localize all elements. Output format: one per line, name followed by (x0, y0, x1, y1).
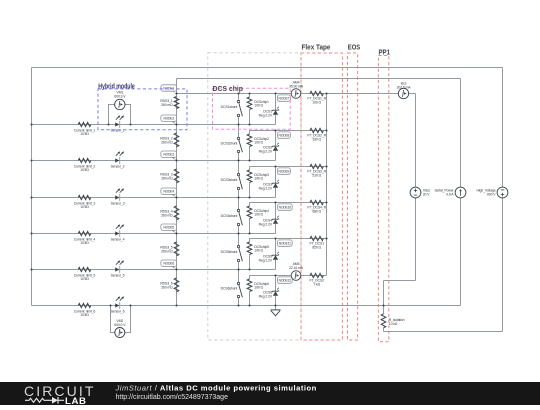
node NODE10 (276, 204, 293, 212)
ammeter AM6 (291, 271, 301, 281)
node NODE8 (276, 132, 291, 140)
node NODE6 (161, 260, 177, 270)
label DCS1 (259, 110, 273, 118)
section box: EOS (348, 53, 358, 340)
resistor RDS3_6 (160, 278, 179, 292)
svg-text:Sensor_6: Sensor_6 (111, 310, 125, 314)
wire: DCS2shunt leads (238, 125, 240, 138)
photodiode Sensor_5 (115, 261, 124, 274)
wire: DCS cell 6 top rail (250, 275, 327, 277)
svg-text:22.16 mA: 22.16 mA (289, 266, 304, 270)
label DCS5 (259, 255, 273, 263)
CircuitLab logo (24, 383, 95, 407)
node NODE12 (276, 277, 293, 285)
resistor FT_DCS3_R (307, 164, 326, 177)
ammeter Idcs (398, 88, 408, 98)
svg-text:100 Ω: 100 Ω (254, 141, 263, 145)
wire: DCS5shunt leads (238, 234, 240, 246)
label AM6 value (289, 262, 304, 270)
svg-text:260 mΩ: 260 mΩ (161, 286, 173, 290)
zener diode DCS4 Reg 2.2V (275, 203, 277, 234)
svg-text:Flex Tape: Flex Tape (302, 44, 331, 51)
svg-text:100 Ω: 100 Ω (254, 286, 263, 290)
svg-text:95.90 mA: 95.90 mA (289, 84, 304, 88)
section box: Hybrid module (98, 89, 187, 130)
svg-text:NODE8: NODE8 (279, 134, 290, 138)
wire: down to R_isolation (383, 281, 385, 314)
node NODE7 (276, 95, 291, 103)
svg-text:600.3 V: 600.3 V (114, 95, 126, 99)
wire: bus to Idcs (327, 93, 399, 95)
resistor RDS3_2 (160, 133, 179, 147)
wire: second rail to Serial_Power (177, 78, 461, 80)
resistor RDS3_3 (160, 169, 179, 183)
svg-text:100 Ω: 100 Ω (254, 213, 263, 217)
wire: row 6 extension to Serial_Power return (276, 305, 461, 307)
switch DCS4shunt (237, 209, 242, 225)
photodiode Sensor_1 (115, 116, 124, 129)
label AM4 value (289, 80, 304, 88)
svg-text:10 kΩ: 10 kΩ (80, 241, 89, 245)
svg-text:10 kΩ: 10 kΩ (389, 322, 398, 326)
wire: Serial_Power top lead (460, 79, 462, 188)
wire: DCS3shunt leads (238, 161, 240, 174)
svg-text:Reg 2.2V: Reg 2.2V (259, 259, 273, 263)
voltmeter VM1 (109, 105, 131, 125)
resistor Current_limit_1 (74, 122, 96, 136)
wire: Serial_Power bottom lead (460, 198, 462, 306)
svg-text:260 mΩ: 260 mΩ (161, 250, 173, 254)
svg-text:DCS4shunt: DCS4shunt (221, 214, 238, 218)
svg-text:DCS2shunt: DCS2shunt (221, 141, 238, 145)
section box: DCS chip (213, 88, 291, 129)
svg-text:PP1: PP1 (379, 49, 391, 56)
svg-text:NODE7: NODE7 (279, 97, 290, 101)
photodiode Sensor_6 (115, 297, 124, 310)
wire: top rail from module frame to High_Voltage (32, 67, 503, 69)
label DCS6 (259, 291, 273, 299)
svg-text:600.0 V: 600.0 V (114, 323, 126, 327)
node NODE11 (276, 240, 293, 248)
svg-text:Sensor_2: Sensor_2 (111, 165, 125, 169)
resistor FT_DCS2_R (307, 128, 326, 141)
switch DCS3shunt (237, 173, 242, 189)
label DCS3 (259, 183, 273, 191)
svg-text:Sensor_3: Sensor_3 (111, 202, 125, 206)
svg-text:7 kΩ: 7 kΩ (313, 283, 320, 287)
wire: High_Voltage bottom lead (502, 198, 504, 332)
svg-text:100 Ω: 100 Ω (254, 249, 263, 253)
switch DCS2shunt (237, 137, 242, 152)
svg-text:DCS1shunt: DCS1shunt (221, 105, 238, 109)
resistor DCSchip1 (247, 94, 269, 125)
svg-text:NODE9: NODE9 (279, 170, 290, 174)
svg-text:0.6 A: 0.6 A (446, 193, 454, 197)
section box: unlabeled gray region (208, 53, 301, 340)
section box: PP1 (378, 56, 388, 342)
svg-text:DCS6shunt: DCS6shunt (221, 286, 238, 290)
zener diode DCS3 Reg 2.2V (275, 167, 277, 198)
svg-text:100 Ω: 100 Ω (254, 104, 263, 108)
zener diode DCS6 Reg 2.2V (275, 276, 277, 306)
svg-text:Reg 2.2V: Reg 2.2V (259, 223, 273, 227)
svg-text:510 Ω: 510 Ω (312, 174, 321, 178)
ground (271, 306, 281, 316)
photodiode Sensor_3 (115, 189, 124, 202)
zener diode DCS5 Reg 2.2V (275, 239, 277, 270)
svg-text:Sensor_4: Sensor_4 (111, 238, 125, 242)
svg-text:NODE6: NODE6 (163, 262, 174, 266)
node NODE1 (161, 85, 177, 94)
resistor Current_limit_6 (74, 303, 96, 317)
photodiode Sensor_2 (115, 152, 124, 165)
resistor DCSchip5 (247, 239, 269, 270)
node NODE4 (161, 188, 177, 198)
wire: DCS cell 4 top rail (250, 202, 327, 204)
wire: row 5 horizontal (32, 269, 276, 271)
wire: row 1 horizontal (32, 124, 276, 126)
wire: High_Voltage top lead (502, 68, 504, 188)
resistor FT_DCS2 (309, 273, 324, 286)
wire: DCS1shunt leads (238, 94, 240, 101)
resistor Current_limit_5 (74, 267, 96, 281)
svg-text:Hybrid module: Hybrid module (98, 82, 135, 91)
resistor RDS3_5 (160, 242, 179, 256)
svg-text:Reg 2.2V: Reg 2.2V (259, 295, 273, 299)
svg-text:NODE4: NODE4 (163, 190, 174, 194)
wire: row 6 horizontal (32, 305, 276, 307)
wire: Idcs to Vdcs line (409, 93, 416, 95)
wire: row 2 horizontal (32, 160, 276, 162)
wire: DCS6shunt leads (238, 270, 240, 283)
photodiode Sensor_4 (115, 225, 124, 238)
svg-text:260 mΩ: 260 mΩ (161, 214, 173, 218)
zener diode DCS2 Reg 2.2V (275, 131, 277, 161)
resistor FT_DCS1_R (307, 91, 326, 104)
wire: R_isolation bottom lead (383, 328, 385, 332)
node NODE2 (161, 115, 177, 125)
svg-text:10 kΩ: 10 kΩ (80, 205, 89, 209)
wire: left frame vertical (31, 68, 33, 306)
svg-text:260 mΩ: 260 mΩ (161, 177, 173, 181)
svg-text:202.6 mA: 202.6 mA (397, 85, 412, 89)
label DCS2 (259, 146, 273, 154)
svg-text:DCS3shunt: DCS3shunt (221, 178, 238, 182)
svg-text:Reg 2.2V: Reg 2.2V (259, 150, 273, 154)
node NODE9 (276, 168, 291, 176)
label VM1 value (114, 91, 126, 99)
svg-text:100 Ω: 100 Ω (254, 177, 263, 181)
switch DCS1shunt (237, 100, 242, 116)
svg-text:EOS: EOS (348, 45, 361, 52)
svg-text:LAB: LAB (65, 396, 87, 405)
ammeter AM4 (291, 89, 301, 99)
wire: bottom return to High_Voltage (384, 331, 503, 333)
wire: DCS cell 3 top rail (250, 166, 327, 168)
resistor FT_DCS1 (309, 236, 324, 249)
svg-text:Reg 2.2V: Reg 2.2V (259, 114, 273, 118)
svg-text:DCS5shunt: DCS5shunt (221, 250, 238, 254)
resistor DCSchip6 (247, 276, 269, 306)
wire: jog to isolation node (384, 280, 416, 282)
wire: AM6 leads (276, 275, 292, 277)
svg-text:NODE3: NODE3 (163, 153, 174, 157)
switch DCS5shunt (237, 245, 242, 261)
svg-text:10 kΩ: 10 kΩ (80, 313, 89, 317)
svg-text:10 kΩ: 10 kΩ (80, 168, 89, 172)
zener diode DCS1 Reg 2.2V (275, 94, 277, 125)
resistor DCSchip3 (247, 167, 269, 198)
switch DCS6shunt (237, 282, 242, 297)
svg-text:260 mΩ: 260 mΩ (161, 103, 173, 107)
wire: row 4 horizontal (32, 233, 276, 235)
resistor DCSchip4 (247, 203, 269, 234)
wire: Vdcs bottom lead (415, 198, 417, 281)
wire: DCS cell 1 top rail (177, 93, 292, 95)
svg-text:NODE12: NODE12 (279, 279, 292, 283)
svg-text:10 kΩ: 10 kΩ (80, 132, 89, 136)
wire: DCS4shunt leads (238, 198, 240, 210)
svg-text:820 Ω: 820 Ω (312, 246, 321, 250)
svg-text:100 Ω: 100 Ω (312, 101, 321, 105)
resistor RDS3_1 (160, 97, 179, 109)
footer bar (0, 382, 540, 405)
svg-text:NODE2: NODE2 (163, 117, 174, 121)
resistor DCSchip2 (247, 131, 269, 161)
svg-text:JimStuart / Altlas DC module p: JimStuart / Altlas DC module powering si… (115, 383, 317, 392)
wire: DCS cell 5 top rail (250, 238, 327, 240)
svg-text:330 Ω: 330 Ω (312, 138, 321, 142)
voltmeter VM2 (111, 306, 131, 333)
wire: Vdcs top lead (415, 94, 417, 188)
svg-text:600 V: 600 V (487, 193, 496, 197)
label VM2 value (114, 319, 126, 327)
resistor RDS3_4 (160, 206, 179, 220)
svg-text:Reg 2.2V: Reg 2.2V (259, 187, 273, 191)
section box: Flex Tape (301, 53, 342, 340)
voltage source High_Voltage (476, 187, 507, 198)
svg-text:NODE5: NODE5 (163, 226, 174, 230)
wire: DCS cell 2 top rail (250, 130, 327, 132)
resistor R_isolation (381, 314, 404, 328)
resistor Current_limit_2 (74, 158, 96, 172)
node NODE5 (161, 224, 177, 234)
wire: row 3 horizontal (32, 197, 276, 199)
resistor FT_DCS4_R (307, 200, 326, 213)
svg-text:Sensor_5: Sensor_5 (111, 274, 125, 278)
svg-text:DCS chip: DCS chip (213, 84, 244, 93)
svg-text:NODE11: NODE11 (279, 242, 291, 246)
wire: flex tape row 1 segment (301, 93, 327, 95)
svg-text:20 V: 20 V (423, 193, 430, 197)
svg-text:260 mΩ: 260 mΩ (161, 141, 173, 145)
node NODE3 (161, 151, 177, 161)
svg-text:10 kΩ: 10 kΩ (80, 277, 89, 281)
svg-text:680 Ω: 680 Ω (312, 210, 321, 214)
wire: flex tape collection bus (326, 94, 328, 276)
label DCS4 (259, 219, 273, 227)
resistor Current_limit_3 (74, 195, 96, 209)
resistor Current_limit_4 (74, 231, 96, 245)
svg-text:NODE10: NODE10 (279, 206, 292, 210)
current source Serial_Power (434, 187, 465, 198)
svg-text:http://circuitlab.com/c5248973: http://circuitlab.com/c524897373age (116, 394, 229, 401)
wire: sense column vertical (176, 79, 178, 306)
voltage source Vdcs (410, 187, 430, 198)
label Idcs value (397, 81, 412, 89)
